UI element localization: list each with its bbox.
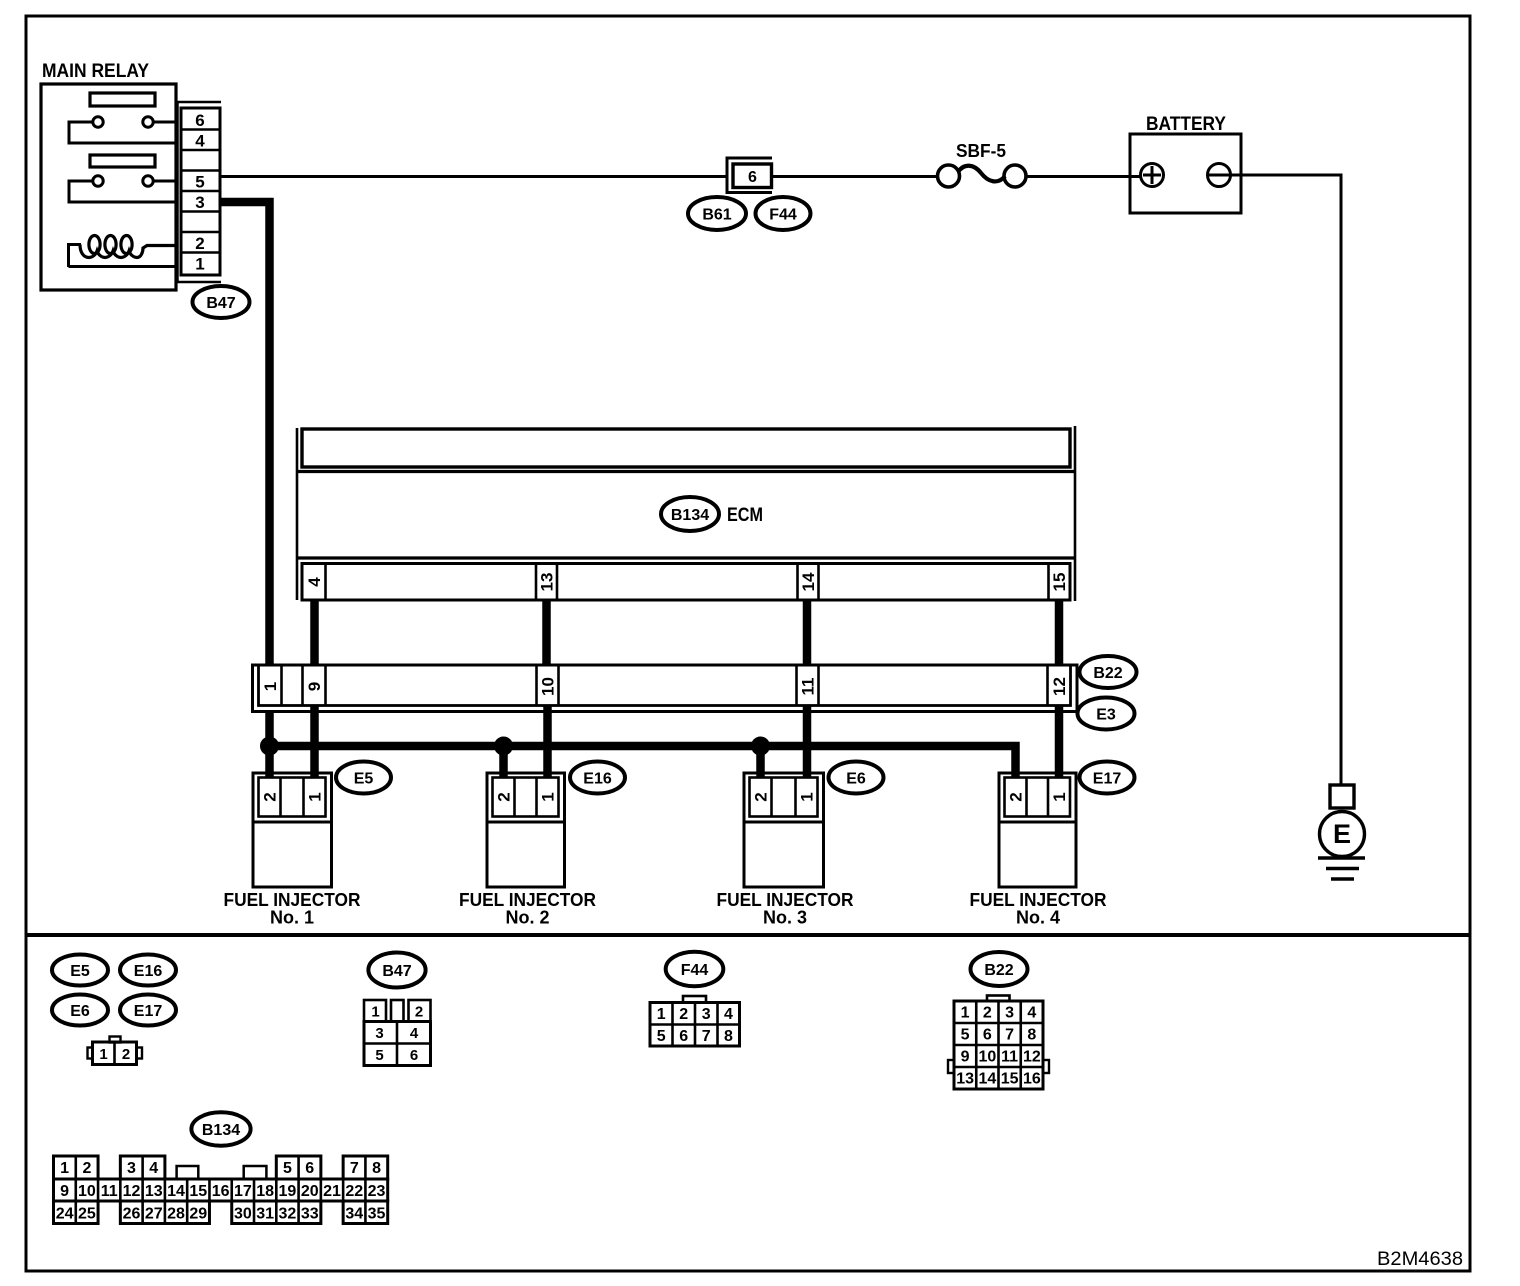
figure number B2M4638 [1377, 1249, 1463, 1270]
svg-text:5: 5 [195, 173, 204, 192]
main relay label MAIN RELAY [42, 61, 149, 82]
svg-text:2: 2 [495, 792, 514, 801]
fuse 6 (fuse box No.6) [727, 158, 772, 193]
connector strip B47 outline [178, 102, 222, 282]
injector No.3 pin 1 label [798, 792, 817, 801]
injector No.4 pin 2 label [1007, 792, 1026, 801]
pin 6 label [195, 111, 204, 130]
injector No.2 pin 1 label [539, 792, 558, 801]
wire ECM pin4 to connector pin9 [310, 600, 319, 664]
svg-text:6: 6 [679, 1028, 688, 1045]
svg-text:20: 20 [301, 1183, 319, 1200]
ECM pin 4 label [305, 577, 324, 587]
connector E5 designator (pinout) [52, 955, 108, 986]
ECM pin 13 label [538, 573, 557, 592]
injector No.2 pin 2 label [495, 792, 514, 801]
connector B22 designator (pinout) [971, 952, 1028, 986]
fuel injector No.4 connector [999, 773, 1076, 887]
svg-text:3: 3 [702, 1006, 711, 1023]
svg-text:3: 3 [195, 193, 204, 212]
svg-text:12: 12 [123, 1183, 141, 1200]
ground symbol [1318, 858, 1365, 879]
svg-text:6: 6 [410, 1047, 418, 1064]
ECM connector pin row [302, 564, 1070, 601]
svg-text:E16: E16 [583, 770, 612, 787]
wire SBF-5 to battery positive [1026, 175, 1142, 178]
battery label BATTERY [1146, 114, 1226, 135]
relay contact bar 1 [90, 93, 155, 106]
svg-text:B47: B47 [206, 295, 235, 312]
wire relay contact2 right to pin 5 [154, 180, 177, 183]
connector strip B47 cell separators [181, 130, 220, 253]
svg-text:4: 4 [305, 577, 324, 587]
svg-text:15: 15 [1001, 1070, 1019, 1087]
svg-text:2: 2 [415, 1004, 423, 1021]
svg-text:11: 11 [1001, 1048, 1018, 1065]
svg-text:B47: B47 [382, 963, 411, 980]
svg-text:4: 4 [724, 1006, 733, 1023]
svg-text:30: 30 [234, 1206, 252, 1223]
svg-text:12: 12 [1050, 677, 1069, 696]
svg-text:B2M4638: B2M4638 [1377, 1249, 1463, 1270]
fuel injector No.4 label [970, 890, 1107, 928]
svg-text:2: 2 [122, 1046, 130, 1063]
svg-text:26: 26 [123, 1206, 141, 1223]
svg-text:15: 15 [1050, 573, 1069, 592]
svg-text:14: 14 [167, 1183, 185, 1200]
svg-text:1: 1 [195, 255, 204, 274]
ECM left edge [296, 428, 299, 600]
svg-text:10: 10 [978, 1048, 996, 1065]
wire relay contact1 right to pin 6 [154, 121, 177, 124]
connector B134 pinout grid [54, 1156, 388, 1224]
svg-text:1: 1 [99, 1046, 107, 1063]
pin 3 label [195, 193, 204, 212]
connector B47 designator [193, 286, 250, 318]
connector pin 1 label [261, 682, 280, 691]
svg-text:1: 1 [261, 682, 280, 691]
svg-text:E17: E17 [134, 1003, 163, 1020]
wire main relay pin3 to connector pin1 (power feed) [220, 202, 270, 664]
injector No.1 pin 2 label [261, 792, 280, 801]
relay contact 2 left terminal [93, 176, 103, 186]
connector pin 12 label [1050, 677, 1069, 696]
connector B134 designator (pinout) [191, 1112, 250, 1145]
connector row separators [282, 666, 1048, 706]
wire ECM pin15 to connector pin12 [1055, 600, 1064, 664]
connector row B22/E3 inner [259, 665, 1071, 706]
svg-text:18: 18 [256, 1183, 274, 1200]
svg-text:11: 11 [101, 1183, 118, 1200]
wire connector pin9 to injector1 pin1 [310, 706, 319, 779]
ECM pin 14 label [799, 572, 818, 591]
svg-text:No. 4: No. 4 [1016, 908, 1060, 928]
relay contact 2 right terminal [143, 176, 153, 186]
svg-text:B22: B22 [984, 962, 1013, 979]
svg-text:17: 17 [234, 1183, 252, 1200]
relay contact 1 left terminal [93, 117, 103, 127]
relay contact bar 2 [90, 155, 155, 167]
connector F44 pinout grid [650, 996, 740, 1046]
svg-text:E: E [1333, 819, 1351, 849]
svg-text:16: 16 [1023, 1070, 1041, 1087]
svg-text:4: 4 [195, 132, 205, 151]
relay coil L1 [69, 236, 177, 268]
svg-text:9: 9 [60, 1183, 69, 1200]
connector pin 11 label [799, 678, 818, 696]
svg-text:1: 1 [371, 1004, 379, 1021]
svg-text:5: 5 [961, 1026, 970, 1043]
fuel injector No.1 label [224, 890, 361, 928]
svg-text:13: 13 [145, 1183, 163, 1200]
battery positive terminal [1141, 164, 1164, 187]
svg-text:22: 22 [345, 1183, 363, 1200]
ground terminal block [1330, 785, 1354, 808]
svg-text:E17: E17 [1093, 770, 1122, 787]
svg-text:7: 7 [350, 1160, 359, 1177]
svg-text:2: 2 [752, 792, 771, 801]
svg-text:5: 5 [283, 1160, 292, 1177]
svg-text:14: 14 [799, 572, 818, 591]
wire bus to injector1 pin2 [265, 746, 274, 778]
connector E5 designator [336, 762, 391, 794]
wire bus to injector3 pin2 [756, 746, 765, 778]
svg-text:9: 9 [961, 1048, 970, 1065]
connector B47 designator (pinout) [368, 953, 425, 988]
svg-text:No. 1: No. 1 [270, 908, 314, 928]
junction node injector 2 [495, 737, 513, 755]
connector F44 designator [756, 197, 811, 230]
svg-text:B134: B134 [202, 1122, 240, 1139]
ECM body box [297, 472, 1075, 559]
wire connector pin10 to injector2 pin1 [543, 706, 552, 779]
svg-text:F44: F44 [769, 206, 797, 223]
svg-text:19: 19 [279, 1183, 297, 1200]
svg-text:1: 1 [798, 792, 817, 801]
fusible link SBF-5 symbol [938, 165, 1027, 187]
svg-text:6: 6 [305, 1160, 314, 1177]
wire ECM pin14 to connector pin11 [803, 600, 812, 664]
svg-text:28: 28 [167, 1206, 185, 1223]
svg-text:3: 3 [375, 1025, 383, 1042]
svg-text:1: 1 [657, 1006, 666, 1023]
svg-text:6: 6 [748, 169, 757, 186]
svg-text:SBF-5: SBF-5 [956, 141, 1006, 161]
svg-text:25: 25 [78, 1206, 96, 1223]
svg-text:2: 2 [195, 234, 204, 253]
svg-text:E5: E5 [70, 963, 90, 980]
connector pin 10 label [539, 677, 558, 696]
wire relay pin5 to fuse [220, 175, 728, 178]
svg-text:1: 1 [306, 792, 325, 801]
svg-text:3: 3 [1005, 1004, 1014, 1021]
svg-text:8: 8 [724, 1028, 733, 1045]
fusible link SBF-5 label [956, 141, 1006, 161]
connector E17 designator (pinout) [120, 995, 176, 1026]
svg-text:35: 35 [368, 1206, 386, 1223]
svg-text:16: 16 [212, 1183, 230, 1200]
svg-text:23: 23 [368, 1183, 386, 1200]
svg-text:2: 2 [1007, 792, 1026, 801]
svg-text:8: 8 [372, 1160, 381, 1177]
svg-text:2: 2 [679, 1006, 688, 1023]
fuel injector No.1 connector [253, 773, 332, 887]
wire fuse to fusible link SBF-5 [772, 175, 938, 178]
connector E6 designator (pinout) [52, 995, 108, 1026]
svg-text:13: 13 [956, 1070, 974, 1087]
svg-text:E5: E5 [354, 770, 374, 787]
connector row B22/E3 outer [253, 665, 1078, 712]
ECM designator B134 [661, 497, 719, 531]
wire ECM pin13 to connector pin10 [542, 600, 551, 664]
relay contact 1 right terminal [143, 117, 153, 127]
svg-text:7: 7 [1005, 1026, 1014, 1043]
svg-text:6: 6 [195, 111, 204, 130]
svg-text:E6: E6 [846, 770, 866, 787]
svg-text:B61: B61 [702, 206, 731, 223]
svg-text:4: 4 [149, 1160, 158, 1177]
svg-text:1: 1 [961, 1004, 970, 1021]
connector B134 pinout numbers [56, 1160, 386, 1223]
wire battery negative to ground drop [1231, 175, 1342, 786]
svg-text:No. 3: No. 3 [763, 908, 807, 928]
wire connector pin11 to injector3 pin1 [803, 706, 812, 779]
svg-text:1: 1 [539, 792, 558, 801]
svg-text:27: 27 [145, 1206, 163, 1223]
svg-text:E6: E6 [70, 1003, 90, 1020]
svg-text:34: 34 [345, 1206, 363, 1223]
connector E3 designator [1078, 698, 1135, 730]
svg-text:14: 14 [978, 1070, 996, 1087]
connector E16 designator [570, 762, 625, 794]
wire relay contact1 left to pin 4 [69, 122, 176, 143]
svg-text:2: 2 [261, 792, 280, 801]
svg-text:6: 6 [983, 1026, 992, 1043]
svg-text:No. 2: No. 2 [505, 908, 549, 928]
pin 2 label [195, 234, 204, 253]
svg-text:7: 7 [702, 1028, 711, 1045]
svg-text:32: 32 [279, 1206, 297, 1223]
connector B47 pinout grid [364, 1000, 431, 1066]
ECM right edge [1074, 426, 1077, 601]
svg-text:4: 4 [1027, 1004, 1036, 1021]
svg-text:12: 12 [1023, 1048, 1041, 1065]
connector E17 designator [1080, 762, 1135, 794]
injector connector pinout (pins 1 2) [88, 1037, 143, 1065]
connector F44 designator (pinout) [666, 952, 724, 986]
svg-text:8: 8 [1027, 1026, 1036, 1043]
svg-text:ECM: ECM [727, 505, 763, 526]
svg-text:10: 10 [78, 1183, 96, 1200]
battery BAT box [1130, 134, 1241, 213]
fuel injector No.2 label [459, 890, 596, 928]
svg-text:13: 13 [538, 573, 557, 592]
ECM top strip [302, 429, 1070, 467]
svg-text:11: 11 [799, 678, 818, 696]
svg-text:E16: E16 [134, 963, 163, 980]
svg-text:9: 9 [305, 682, 324, 691]
pin 5 label [195, 173, 204, 192]
power bus to injectors [270, 746, 1016, 778]
fuel injector No.2 connector [487, 773, 565, 887]
section divider line [26, 933, 1470, 937]
svg-text:24: 24 [56, 1206, 74, 1223]
pin 4 label [195, 132, 205, 151]
relay box [41, 84, 176, 290]
svg-text:4: 4 [410, 1025, 419, 1042]
wire relay contact2 left to pin 3 [69, 181, 176, 202]
svg-text:21: 21 [323, 1183, 341, 1200]
svg-text:5: 5 [657, 1028, 666, 1045]
connector B61 designator [688, 197, 746, 230]
injector No.3 pin 2 label [752, 792, 771, 801]
fuel injector No.3 connector [744, 773, 824, 887]
svg-text:2: 2 [983, 1004, 992, 1021]
connector E6 designator [829, 762, 884, 794]
svg-text:B134: B134 [671, 507, 709, 524]
connector B22 designator [1080, 656, 1137, 688]
connector B22 pinout numbers [948, 996, 1049, 1090]
svg-text:29: 29 [189, 1206, 207, 1223]
wire connector pin12 to injector4 pin1 [1055, 706, 1064, 779]
wire bus to injector2 pin2 [499, 746, 508, 778]
svg-text:BATTERY: BATTERY [1146, 114, 1226, 135]
injector No.4 pin 1 label [1050, 792, 1069, 801]
svg-text:5: 5 [375, 1047, 383, 1064]
injector No.1 pin 1 label [306, 792, 325, 801]
svg-text:1: 1 [1050, 792, 1069, 801]
svg-text:1: 1 [60, 1160, 69, 1177]
svg-text:31: 31 [256, 1206, 274, 1223]
svg-text:15: 15 [189, 1183, 207, 1200]
svg-text:MAIN RELAY: MAIN RELAY [42, 61, 149, 82]
wire relay coil to pin 1 [69, 265, 177, 268]
svg-text:E3: E3 [1096, 706, 1116, 723]
ECM pin row separators [326, 564, 1049, 601]
wire connector pin1 down to bus [265, 711, 274, 746]
svg-text:33: 33 [301, 1206, 319, 1223]
connector pin 9 label [305, 682, 324, 691]
fuel injector No.3 label [717, 890, 854, 928]
junction node injector 1 [261, 737, 279, 755]
svg-text:F44: F44 [681, 962, 709, 979]
ground node E [1320, 812, 1365, 857]
connector E16 designator (pinout) [120, 955, 176, 986]
battery negative terminal [1208, 164, 1231, 187]
svg-text:10: 10 [539, 677, 558, 696]
junction node injector 3 [752, 737, 770, 755]
ECM pin 15 label [1050, 573, 1069, 592]
ECM label [727, 505, 763, 526]
pin 1 label [195, 255, 204, 274]
svg-text:B22: B22 [1093, 665, 1122, 682]
svg-text:2: 2 [82, 1160, 91, 1177]
svg-text:3: 3 [127, 1160, 136, 1177]
